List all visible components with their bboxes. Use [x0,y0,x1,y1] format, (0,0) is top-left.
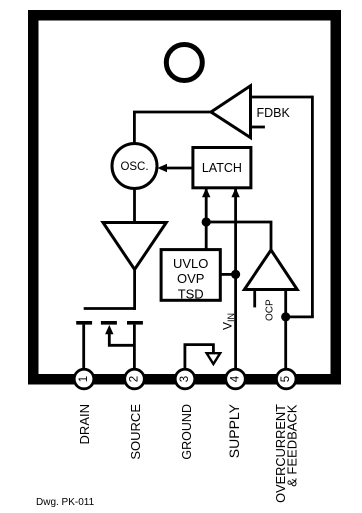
svg-text:LATCH: LATCH [202,161,242,175]
arrowhead into LATCH left input [202,188,210,198]
MOSFET body contact bar [101,321,117,325]
oscillator OSC. [112,144,157,189]
svg-text:5: 5 [280,376,292,382]
latch block LATCH [193,148,251,188]
svg-text:& FEEDBACK: & FEEDBACK [285,404,300,487]
protection block UVLO OVP TSD [161,250,220,301]
arrowhead into OSC [158,164,168,172]
node junction dot on VIN line [231,270,240,279]
pin 2 circle [125,369,145,389]
wire UVLO output up to LATCH [205,189,208,251]
wire UVLO supply stub [220,273,235,276]
MOSFET source contact bar [127,321,143,325]
wire MOSFET body to source [109,331,134,345]
pin 3 circle [175,369,195,389]
node junction dot on UVLO output [202,217,211,226]
svg-text:TSD: TSD [178,286,204,301]
svg-text:DRAIN: DRAIN [77,404,92,444]
svg-text:OCP: OCP [264,299,275,321]
svg-text:UVLO: UVLO [173,256,208,271]
wire FDBK top input from feedback line [250,96,312,99]
MOSFET drain contact bar [76,321,92,325]
ground symbol [207,353,221,364]
wire fault bus to OCP comparator [206,222,271,252]
wire OSC bottom to driver [133,186,136,224]
svg-text:4: 4 [230,375,242,382]
pin 5 circle [276,369,296,389]
svg-text:2: 2 [129,376,141,382]
svg-text:SOURCE: SOURCE [128,404,143,460]
arrowhead MOSFET body (pointing up) [105,325,113,334]
svg-text:GROUND: GROUND [180,404,194,460]
svg-text:3: 3 [179,376,191,382]
svg-text:VIN: VIN [221,313,237,330]
IC package outline frame [33,15,336,379]
pin 1 circle [74,369,94,389]
arrowhead into LATCH right input [231,188,239,198]
wire OCP right input to pin5 [284,290,287,370]
wire LATCH output to OSC [160,167,194,170]
svg-text:SUPPLY: SUPPLY [226,403,242,458]
svg-text:FDBK: FDBK [257,106,291,120]
svg-text:OSC.: OSC. [120,161,148,173]
wire FDBK output to OSC top [134,112,211,146]
svg-text:OVP: OVP [177,271,204,286]
svg-text:Dwg. PK-011: Dwg. PK-011 [36,497,95,508]
wire right-side feedback vertical [311,96,314,317]
marker circle (pin 1 indicator) [166,45,202,81]
MOSFET gate bar [84,307,136,310]
wire VIN line pin4 to LATCH [234,189,237,370]
wire drain to pin1 [82,325,85,370]
wire driver output to MOSFET gate [133,267,136,310]
svg-text:1: 1 [78,376,90,382]
wire OCP left input stub [253,290,256,307]
wire ground from pin3 [185,345,214,370]
wire source to pin2 [133,325,136,370]
wire FDBK lower input stub [251,126,265,129]
wire feedback bottom horizontal to pin5 node [286,315,314,318]
comparator OCP [244,250,297,290]
gate driver triangle [103,223,166,270]
pin 4 circle [226,369,246,389]
op-amp FDBK [211,86,251,138]
node junction dot at pin5 feedback [281,312,290,321]
